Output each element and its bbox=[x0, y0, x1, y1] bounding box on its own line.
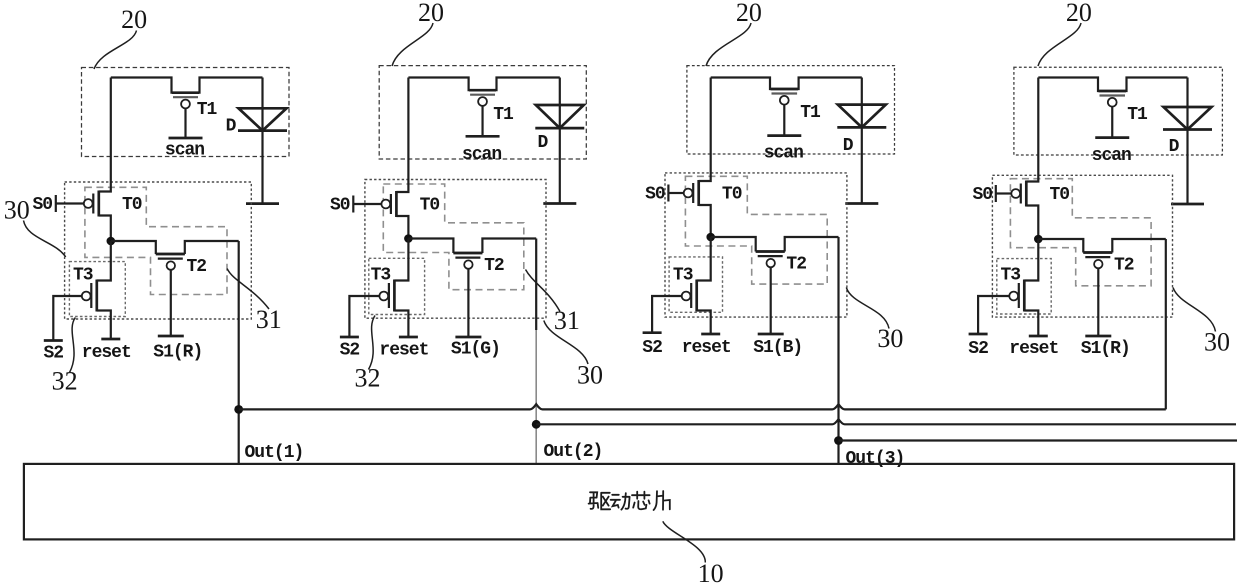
scan terminal bar (cell 2) bbox=[466, 135, 500, 138]
scan terminal bar (cell 4) bbox=[1095, 136, 1129, 139]
wire: top rail of cell 3 bbox=[711, 78, 862, 90]
label reset (cell 2) bbox=[379, 341, 428, 361]
svg-text:30: 30 bbox=[1204, 328, 1230, 357]
transistor T3 (cell 1) bbox=[82, 241, 111, 339]
svg-text:20: 20 bbox=[736, 0, 762, 27]
label T3 (cell 1) bbox=[73, 266, 93, 286]
reset terminal bar (cell 2) bbox=[399, 336, 418, 339]
reset terminal bar (cell 3) bbox=[701, 333, 720, 336]
svg-text:S1(R): S1(R) bbox=[153, 343, 202, 363]
wire: top rail of cell 1 bbox=[111, 78, 263, 93]
label S2 (cell 4) bbox=[968, 339, 988, 359]
label S0 (cell 2) bbox=[330, 196, 350, 216]
label scan (cell 4) bbox=[1092, 146, 1131, 166]
label 30 (cell 4) bbox=[1204, 328, 1230, 357]
svg-text:31: 31 bbox=[256, 305, 282, 334]
svg-text:T0: T0 bbox=[722, 185, 742, 205]
svg-text:D: D bbox=[226, 117, 237, 137]
dashed box 31 (cell 2) bbox=[383, 184, 524, 290]
label T1 (cell 3) bbox=[800, 103, 821, 123]
S1 input terminal (cell 3) bbox=[758, 267, 784, 334]
S0 input terminal (cell 1) bbox=[56, 195, 84, 212]
svg-text:T0: T0 bbox=[420, 196, 440, 216]
label T2 (cell 2) bbox=[484, 256, 504, 276]
svg-text:reset: reset bbox=[682, 338, 731, 358]
label S0 (cell 3) bbox=[645, 185, 665, 205]
svg-text:T3: T3 bbox=[73, 266, 93, 286]
transistor T3 (cell 4) bbox=[1009, 239, 1038, 336]
transistor T1 (cell 4) bbox=[1099, 91, 1127, 138]
S2 input terminal (cell 3) bbox=[643, 296, 682, 333]
LED diode D (cell 1) bbox=[238, 108, 287, 130]
leader to box 30 (cell 4) bbox=[1173, 288, 1216, 332]
node: T0 drain junction (cell 2) bbox=[404, 234, 413, 243]
dashed box 31 (cell 4) bbox=[1010, 179, 1151, 286]
svg-text:20: 20 bbox=[418, 0, 444, 27]
label D (cell 4) bbox=[1169, 137, 1180, 157]
svg-text:T1: T1 bbox=[800, 103, 821, 123]
label S1(B) (cell 3) bbox=[753, 338, 802, 358]
svg-text:S1(R): S1(R) bbox=[1081, 339, 1130, 359]
label S1(R) (cell 4) bbox=[1081, 339, 1130, 359]
wire: top rail of cell 2 bbox=[408, 78, 559, 91]
wire: Out(1) vertical from cell 1 bbox=[238, 241, 240, 464]
transistor T0 (cell 3) bbox=[684, 78, 711, 238]
label 30 (cell 2) bbox=[577, 361, 603, 390]
node: junction Out(2) bbox=[532, 420, 541, 429]
svg-text:32: 32 bbox=[52, 367, 78, 396]
svg-text:S2: S2 bbox=[340, 341, 360, 361]
label T3 (cell 2) bbox=[371, 266, 391, 286]
leader to box 30 (cell 2) bbox=[544, 321, 588, 365]
label T2 (cell 1) bbox=[186, 257, 206, 277]
label D (cell 3) bbox=[843, 136, 854, 156]
transistor T2 (cell 2) bbox=[408, 239, 536, 269]
transistor T1 (cell 2) bbox=[469, 90, 496, 136]
svg-text:D: D bbox=[843, 136, 854, 156]
LED diode D (cell 4) bbox=[1163, 107, 1212, 130]
text 动 (driver chip label char 2) bbox=[611, 493, 630, 509]
transistor T2 (cell 4) bbox=[1038, 239, 1166, 268]
svg-text:D: D bbox=[537, 133, 548, 153]
svg-text:T2: T2 bbox=[484, 256, 504, 276]
label 30 (cell 1) bbox=[4, 196, 30, 225]
S2 input terminal (cell 1) bbox=[44, 296, 82, 341]
svg-text:T0: T0 bbox=[122, 195, 142, 215]
node: junction Out(1) bbox=[234, 405, 243, 414]
S0 input terminal (cell 4) bbox=[996, 185, 1012, 202]
svg-text:T3: T3 bbox=[1000, 266, 1020, 286]
transistor T0 (cell 4) bbox=[1011, 78, 1038, 240]
label 10 (driver chip) bbox=[698, 559, 724, 588]
svg-text:T0: T0 bbox=[1049, 185, 1069, 205]
transistor T1 (cell 3) bbox=[771, 89, 799, 136]
dashed box 20 (pixel unit, cell 3) bbox=[687, 66, 895, 154]
label T3 (cell 3) bbox=[673, 266, 693, 286]
label 31 (cell 1) bbox=[256, 305, 282, 334]
label Out(2) bbox=[544, 442, 603, 462]
label reset (cell 3) bbox=[682, 338, 731, 358]
label T0 (cell 3) bbox=[722, 185, 742, 205]
leader to box 10 bbox=[663, 521, 706, 562]
dashed box 20 (pixel unit, cell 2) bbox=[379, 66, 586, 159]
label Out(1) bbox=[245, 443, 304, 463]
transistor T2 (cell 3) bbox=[711, 237, 839, 267]
svg-text:S1(B): S1(B) bbox=[753, 338, 802, 358]
label 20 (cell 2) bbox=[418, 0, 444, 27]
scan terminal bar (cell 3) bbox=[767, 134, 801, 137]
label scan (cell 1) bbox=[165, 141, 204, 161]
label scan (cell 2) bbox=[462, 145, 501, 165]
leader to box 20 (cell 4) bbox=[1038, 23, 1081, 66]
dashed box 20 (pixel unit, cell 4) bbox=[1014, 67, 1223, 155]
leader to box 20 (cell 1) bbox=[94, 31, 137, 70]
label S2 (cell 2) bbox=[340, 341, 360, 361]
wire: Out(1) bus line bbox=[239, 404, 1166, 409]
wire: Out(2) bus line bbox=[536, 419, 1236, 424]
reset terminal bar (cell 4) bbox=[1029, 335, 1048, 338]
reset terminal bar (cell 1) bbox=[101, 338, 120, 341]
label S2 (cell 1) bbox=[43, 344, 63, 364]
svg-text:10: 10 bbox=[698, 559, 724, 588]
svg-text:scan: scan bbox=[1092, 146, 1131, 166]
wire: Out(2) vertical from cell 2 bbox=[535, 239, 537, 464]
text 片 (driver chip label char 4) bbox=[654, 491, 670, 510]
label reset (cell 4) bbox=[1009, 339, 1058, 359]
wire: diode anode/cathode vertical (cell 3) bbox=[861, 78, 863, 204]
label T1 (cell 1) bbox=[197, 100, 218, 120]
cathode supply bar (cell 2) bbox=[543, 202, 576, 205]
dotted box 30 (cell 3) bbox=[665, 173, 847, 317]
svg-text:30: 30 bbox=[577, 361, 603, 390]
svg-text:S0: S0 bbox=[972, 185, 992, 205]
node: T0 drain junction (cell 3) bbox=[706, 233, 715, 242]
svg-text:reset: reset bbox=[379, 341, 428, 361]
transistor T0 (cell 2) bbox=[381, 78, 408, 239]
text 驱 (driver chip label char 1) bbox=[589, 492, 611, 509]
svg-text:T1: T1 bbox=[493, 105, 514, 125]
svg-text:Out(2): Out(2) bbox=[544, 442, 603, 462]
driver chip box 10 bbox=[24, 464, 1234, 540]
cathode supply bar (cell 1) bbox=[246, 202, 279, 205]
svg-text:T3: T3 bbox=[371, 266, 391, 286]
svg-text:D: D bbox=[1169, 137, 1180, 157]
label S1(R) (cell 1) bbox=[153, 343, 202, 363]
dashed box 31 (cell 3) bbox=[685, 176, 827, 284]
node: T0 drain junction (cell 1) bbox=[107, 237, 116, 246]
svg-text:scan: scan bbox=[462, 145, 501, 165]
svg-text:scan: scan bbox=[764, 143, 803, 163]
label 30 (cell 3) bbox=[877, 324, 903, 353]
wire: diode anode/cathode vertical (cell 1) bbox=[261, 78, 263, 204]
label S0 (cell 1) bbox=[32, 195, 52, 215]
label T1 (cell 2) bbox=[493, 105, 514, 125]
svg-text:30: 30 bbox=[4, 196, 30, 225]
dotted box 30 (cell 1) bbox=[65, 182, 252, 319]
wire: diode anode/cathode vertical (cell 4) bbox=[1186, 78, 1188, 205]
svg-text:20: 20 bbox=[121, 5, 147, 34]
transistor T1 (cell 1) bbox=[172, 93, 199, 138]
label scan (cell 3) bbox=[764, 143, 803, 163]
svg-text:T1: T1 bbox=[1127, 105, 1148, 125]
svg-text:Out(3): Out(3) bbox=[846, 449, 905, 469]
dashed box 32 (cell 2) bbox=[369, 258, 425, 314]
leader to box 32 (cell 1) bbox=[70, 318, 76, 373]
S2 input terminal (cell 4) bbox=[969, 296, 1010, 334]
svg-text:S2: S2 bbox=[43, 344, 63, 364]
label S0 (cell 4) bbox=[972, 185, 992, 205]
transistor T3 (cell 2) bbox=[379, 239, 408, 338]
dashed box 32 (cell 4) bbox=[997, 259, 1051, 314]
svg-text:reset: reset bbox=[1009, 339, 1058, 359]
S1 input terminal (cell 2) bbox=[455, 269, 481, 337]
svg-text:S2: S2 bbox=[642, 338, 662, 358]
svg-text:S0: S0 bbox=[32, 195, 52, 215]
dashed box 32 (cell 3) bbox=[669, 257, 722, 312]
svg-text:Out(1): Out(1) bbox=[245, 443, 304, 463]
S0 input terminal (cell 2) bbox=[353, 196, 381, 213]
label T0 (cell 2) bbox=[420, 196, 440, 216]
label S2 (cell 3) bbox=[642, 338, 662, 358]
S0 input terminal (cell 3) bbox=[668, 185, 683, 202]
svg-text:S2: S2 bbox=[968, 339, 988, 359]
cathode supply bar (cell 3) bbox=[845, 202, 878, 205]
label 20 (cell 4) bbox=[1066, 0, 1092, 27]
dashed box 32 (cell 1) bbox=[69, 262, 125, 317]
label T3 (cell 4) bbox=[1000, 266, 1020, 286]
svg-text:T2: T2 bbox=[1114, 256, 1134, 276]
node: junction Out(3) bbox=[834, 436, 843, 445]
svg-text:T2: T2 bbox=[186, 257, 206, 277]
svg-text:reset: reset bbox=[82, 343, 131, 363]
label reset (cell 1) bbox=[82, 343, 131, 363]
label 32 (cell 2) bbox=[355, 364, 381, 393]
svg-text:scan: scan bbox=[165, 141, 204, 161]
svg-text:T2: T2 bbox=[786, 255, 806, 275]
transistor T2 (cell 1) bbox=[111, 241, 239, 270]
S1 input terminal (cell 1) bbox=[158, 270, 184, 336]
svg-text:31: 31 bbox=[554, 306, 580, 335]
LED diode D (cell 2) bbox=[535, 105, 584, 128]
label D (cell 2) bbox=[537, 133, 548, 153]
leader to box 31 (cell 1) bbox=[227, 269, 269, 309]
text 芯 (driver chip label char 3) bbox=[632, 492, 650, 510]
wire: top rail of cell 4 bbox=[1038, 78, 1187, 92]
svg-text:32: 32 bbox=[355, 364, 381, 393]
dotted box 30 (cell 2) bbox=[365, 180, 546, 319]
label Out(3) bbox=[846, 449, 905, 469]
label T0 (cell 4) bbox=[1049, 185, 1069, 205]
dashed box 20 (pixel unit, cell 1) bbox=[82, 68, 290, 157]
leader to box 20 (cell 3) bbox=[706, 23, 751, 66]
svg-text:T3: T3 bbox=[673, 266, 693, 286]
transistor T0 (cell 1) bbox=[84, 78, 111, 242]
leader to box 31 (cell 2) bbox=[526, 270, 561, 312]
label 31 (cell 2) bbox=[554, 306, 580, 335]
S2 input terminal (cell 2) bbox=[340, 296, 380, 337]
svg-text:30: 30 bbox=[877, 324, 903, 353]
scan terminal bar (cell 1) bbox=[169, 137, 203, 140]
label 20 (cell 3) bbox=[736, 0, 762, 27]
S1 input terminal (cell 4) bbox=[1085, 268, 1111, 336]
svg-text:S0: S0 bbox=[330, 196, 350, 216]
node: T0 drain junction (cell 4) bbox=[1034, 235, 1043, 244]
wire: Out(3) vertical from cell 3 bbox=[837, 237, 839, 464]
label S1(G) (cell 2) bbox=[451, 340, 500, 360]
label T1 (cell 4) bbox=[1127, 105, 1148, 125]
label T0 (cell 1) bbox=[122, 195, 142, 215]
svg-text:S1(G): S1(G) bbox=[451, 340, 500, 360]
leader to box 30 (cell 3) bbox=[846, 288, 889, 329]
label T2 (cell 3) bbox=[786, 255, 806, 275]
svg-text:S0: S0 bbox=[645, 185, 665, 205]
dotted box 30 (cell 4) bbox=[992, 175, 1172, 317]
label 32 (cell 1) bbox=[52, 367, 78, 396]
svg-text:T1: T1 bbox=[197, 100, 218, 120]
leader to box 30 (cell 1) bbox=[24, 221, 66, 258]
transistor T3 (cell 3) bbox=[682, 237, 711, 334]
leader to box 32 (cell 2) bbox=[369, 316, 376, 370]
cathode supply bar (cell 4) bbox=[1171, 203, 1204, 206]
dashed box 31 (cell 1) bbox=[85, 187, 227, 294]
label T2 (cell 4) bbox=[1114, 256, 1134, 276]
leader to box 20 (cell 2) bbox=[392, 23, 433, 66]
label 20 (cell 1) bbox=[121, 5, 147, 34]
LED diode D (cell 3) bbox=[837, 105, 886, 128]
wire: Out(3) bus line bbox=[839, 439, 1238, 441]
svg-text:20: 20 bbox=[1066, 0, 1092, 27]
label D (cell 1) bbox=[226, 117, 237, 137]
wire: cell 4 output vertical bbox=[1165, 239, 1167, 409]
wire: diode anode/cathode vertical (cell 2) bbox=[559, 78, 561, 204]
